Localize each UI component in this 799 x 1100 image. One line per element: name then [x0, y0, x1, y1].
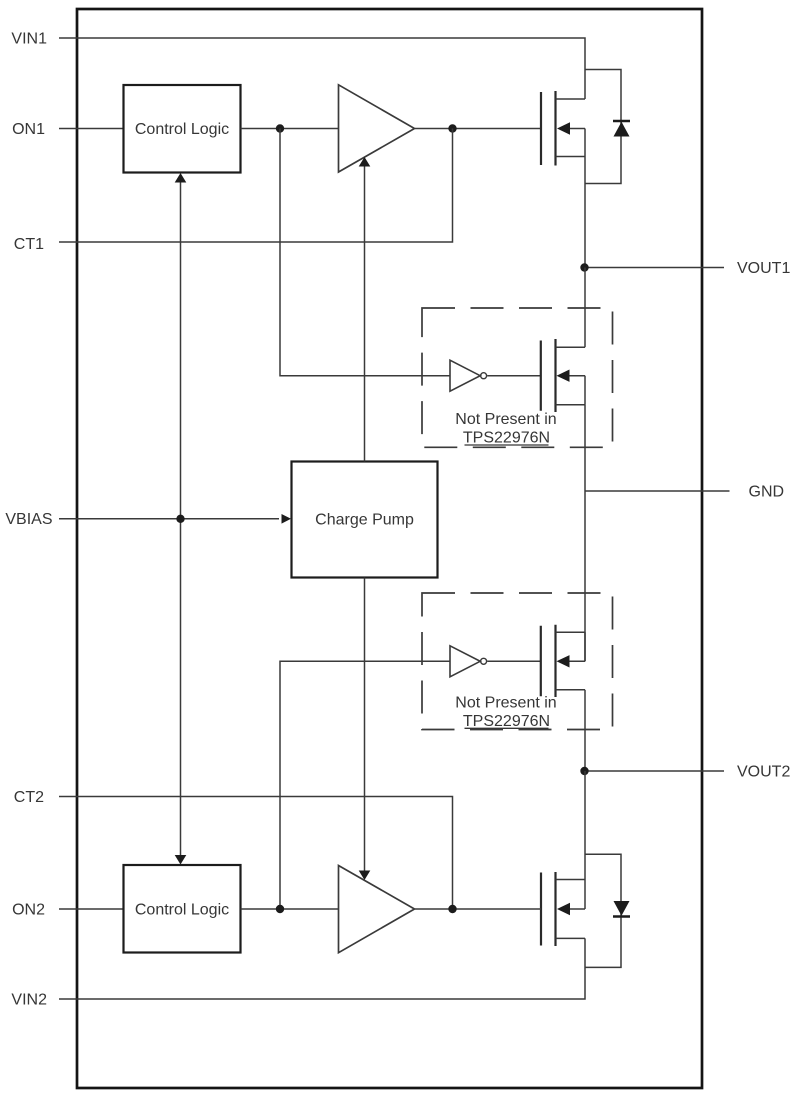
wire charge pump up to driver A1: [364, 165, 366, 462]
wire Q3 source down to GND rail and Q4: [584, 405, 586, 662]
wire VIN1 pin to Q1 drain rail: [59, 38, 585, 99]
arrowhead into charge pump: [282, 514, 292, 524]
wire Q1 source to VOUT1 node: [584, 157, 586, 268]
arrowhead into U1 bottom: [175, 173, 187, 183]
transistor Q1 (VIN1 power NFET): [541, 91, 585, 166]
driver buffer A1: [339, 85, 415, 172]
wire Q4 drain down to VOUT2 node: [584, 690, 586, 771]
svg-text:Not Present in: Not Present in: [455, 411, 556, 428]
wire GND rail to pin: [585, 490, 730, 492]
svg-text:VIN2: VIN2: [11, 992, 47, 1009]
wire A1 output to Q1 gate: [415, 128, 541, 130]
node ON1 branch junction: [276, 124, 284, 132]
wire A4 output to Q4 gate: [487, 660, 541, 662]
node CT1 junction: [448, 124, 456, 132]
IC boundary box: [77, 9, 702, 1088]
wire CT1 pin to A1 output node: [59, 129, 453, 243]
wire VIN2 pin to Q2 drain rail: [59, 938, 585, 999]
inverter A3: [450, 360, 487, 391]
svg-text:VBIAS: VBIAS: [5, 511, 52, 528]
transistor Q2 (VIN2 power NFET): [541, 872, 585, 946]
svg-text:GND: GND: [749, 484, 785, 501]
svg-text:ON1: ON1: [12, 121, 45, 138]
node VBIAS junction: [176, 515, 184, 523]
svg-text:ON2: ON2: [12, 902, 45, 919]
control logic U1: [124, 85, 241, 173]
wire charge pump down to driver A2: [364, 578, 366, 873]
wire VBIAS vertical to control logic blocks: [180, 181, 182, 857]
svg-text:Control Logic: Control Logic: [135, 121, 229, 138]
wire ON2 pin to Control Logic U2: [59, 908, 124, 910]
underline TPS22976N (upper): [465, 444, 549, 446]
charge pump U3: [292, 462, 438, 578]
wire ON1 pin to Control Logic U1: [59, 128, 124, 130]
node VOUT2: [580, 767, 588, 775]
svg-text:Not Present in: Not Present in: [455, 695, 556, 712]
dashed option box 1: [422, 308, 613, 447]
svg-text:TPS22976N: TPS22976N: [463, 430, 550, 447]
node VOUT1: [580, 263, 588, 271]
svg-text:VIN1: VIN1: [11, 31, 47, 48]
svg-text:Control Logic: Control Logic: [135, 902, 229, 919]
wire A2 output to Q2 gate: [415, 908, 541, 910]
diode D2 (Q2 body diode): [585, 854, 630, 967]
underline TPS22976N (lower): [465, 727, 549, 729]
svg-text:VOUT1: VOUT1: [737, 260, 790, 277]
svg-text:CT1: CT1: [14, 236, 44, 253]
wire VOUT1 node down to Q3 drain: [584, 268, 586, 348]
svg-text:VOUT2: VOUT2: [737, 764, 790, 781]
svg-text:Charge Pump: Charge Pump: [315, 512, 414, 529]
svg-text:TPS22976N: TPS22976N: [463, 713, 550, 730]
inverter A4: [450, 646, 487, 677]
wire VBIAS pin to charge pump: [59, 518, 279, 520]
diode D1 (Q1 body diode): [585, 70, 630, 184]
node ON2 branch junction: [276, 905, 284, 913]
wire VOUT2 node down to Q2 source: [584, 771, 586, 880]
arrowhead into U2 top: [175, 855, 187, 865]
svg-text:CT2: CT2: [14, 789, 44, 806]
wire ON1 node to inverter A3 input: [280, 129, 450, 376]
control logic U2: [124, 865, 241, 953]
wire U2 output to driver A2 input: [241, 908, 339, 910]
arrowhead into A1: [359, 157, 371, 167]
wire A3 output to Q3 gate: [487, 375, 541, 377]
transistor Q4 (bypass NFET, lower): [541, 625, 585, 697]
node CT2 junction: [448, 905, 456, 913]
wire U1 output to driver A1 input: [241, 128, 339, 130]
arrowhead into A2: [359, 871, 371, 881]
wire VOUT1 node to pin: [585, 267, 725, 269]
transistor Q3 (bypass NFET, upper): [541, 339, 585, 412]
wire CT2 pin to A2 output node: [59, 797, 453, 910]
wire ON2 node to inverter A4 input: [280, 661, 450, 909]
driver buffer A2: [339, 866, 415, 953]
wire VOUT2 node to pin: [585, 770, 725, 772]
dashed option box 2: [422, 593, 613, 730]
